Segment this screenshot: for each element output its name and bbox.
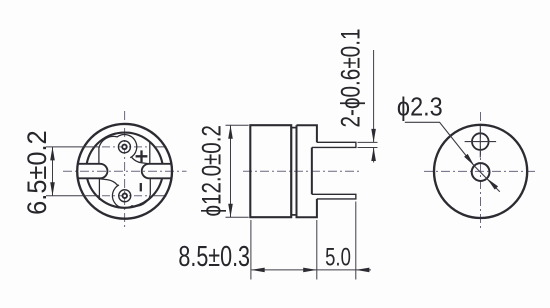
svg-text:ϕ12.0±0.2: ϕ12.0±0.2 <box>198 125 227 216</box>
arrow up 6.5 <box>50 147 55 161</box>
bottom pin pocket outline (rotated copy) <box>99 179 150 208</box>
extension line, body top <box>226 124 249 126</box>
top pocket tail to right slot <box>132 157 150 164</box>
extension line, pin bottom edge <box>358 146 378 148</box>
arrow down 6.5 <box>50 182 55 196</box>
centerline horizontal, top view <box>424 170 538 172</box>
extension line, pin end <box>355 202 357 280</box>
plus polarity mark <box>136 150 148 162</box>
extension line, top pin center <box>46 146 100 148</box>
svg-text:8.5±0.3: 8.5±0.3 <box>178 241 250 273</box>
sound hole cross vertical <box>479 126 481 158</box>
bottom pin (negative terminal) <box>119 190 131 202</box>
leader line phi2.3 <box>405 122 500 192</box>
edge above right slot <box>149 143 151 164</box>
svg-text:5.0: 5.0 <box>325 243 351 271</box>
sound hole cross horizontal <box>465 141 497 143</box>
top pin pocket outline <box>99 135 137 164</box>
case outer circle, bottom view <box>77 124 172 219</box>
case outer circle, top view <box>434 125 527 218</box>
center hole phi2.3 <box>472 163 490 181</box>
centerline tick, bottom pin <box>102 195 148 197</box>
arrow up at pin bottom <box>371 147 376 161</box>
extension line, body bottom <box>226 216 249 218</box>
arrow at hole upper-left <box>464 154 476 167</box>
case inner circle top arc <box>87 133 163 164</box>
clamp band groove <box>291 128 296 215</box>
centerline vertical, top view <box>480 112 482 231</box>
lower lead pin <box>312 194 356 199</box>
centerline tick, top pin <box>102 146 148 148</box>
ring tick right of bottom pin <box>154 195 167 197</box>
arrow down phi12.0 <box>228 204 233 218</box>
arrow down at pin top <box>371 129 376 143</box>
leader line 2-phi0.6 <box>373 50 375 142</box>
buzzer body <box>250 125 291 217</box>
arrow up phi12.0 <box>228 125 233 139</box>
upper lead pin <box>312 142 356 147</box>
svg-text:2-ϕ0.6±0.1: 2-ϕ0.6±0.1 <box>336 29 366 128</box>
centerline vertical, bottom view <box>124 111 126 230</box>
case inner circle bottom arc <box>87 178 162 207</box>
extension line, bottom pin center <box>46 195 100 197</box>
arrow left 5.0 <box>356 268 370 273</box>
extension line, body left face <box>250 220 252 280</box>
dimension line 6.5 <box>52 147 54 196</box>
ring tick right of top pin <box>154 146 167 148</box>
dimension line 8.5 and 5.0 <box>251 269 371 271</box>
right slot <box>142 164 172 179</box>
svg-text:6.5±0.2: 6.5±0.2 <box>21 130 52 215</box>
centerline horizontal, bottom view <box>63 170 187 172</box>
top pin (positive terminal) <box>118 141 130 153</box>
base block <box>297 125 317 217</box>
leader tail below pin <box>373 148 375 163</box>
left slot <box>78 164 108 179</box>
minus polarity mark <box>140 183 142 191</box>
extension line, base right face <box>316 220 318 280</box>
dimension line phi12.0 <box>230 125 232 217</box>
arrow at hole lower-right <box>485 177 498 190</box>
arrow left 8.5 <box>251 268 265 273</box>
arrow right 8.5 <box>303 268 317 273</box>
extension line, pin top edge <box>358 141 378 143</box>
centerline horizontal, side view <box>243 170 361 172</box>
svg-text:ϕ2.3: ϕ2.3 <box>397 94 443 122</box>
sound hole circle <box>472 133 489 150</box>
